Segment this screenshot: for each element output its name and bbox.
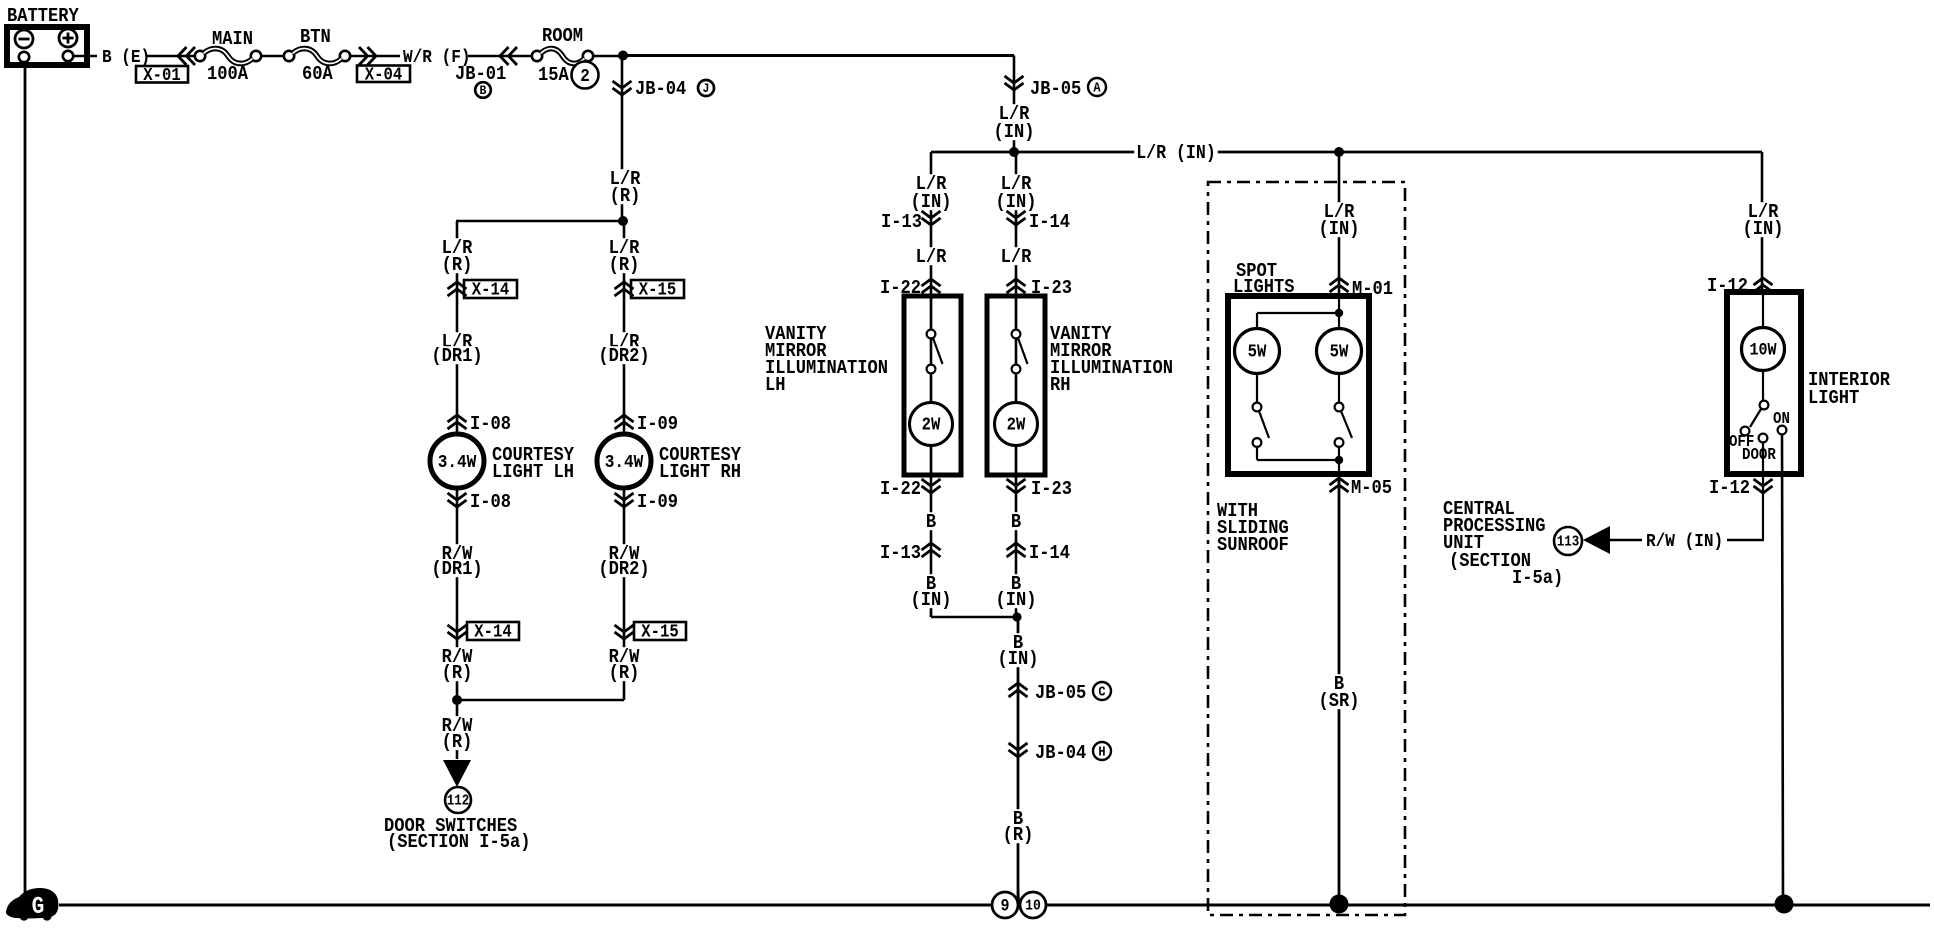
wire ground bus xyxy=(59,904,1930,907)
connector JB-05 A xyxy=(1005,76,1107,100)
lamp courtesy light LH 3.4W xyxy=(430,434,484,488)
label CENTRAL PROCESSING UNIT (SECTION I-5a) xyxy=(1443,498,1563,589)
connector I-22 lower xyxy=(880,478,941,500)
wire interior door contact to R/W (IN) xyxy=(1762,443,1764,541)
wire spot lights to ground xyxy=(1338,474,1341,903)
svg-text:B: B xyxy=(1011,511,1021,533)
svg-text:10W: 10W xyxy=(1749,341,1777,360)
lamp vanity LH 2W xyxy=(910,403,953,476)
label L/R (IN) vanity RH xyxy=(994,173,1039,213)
svg-text:I-5a): I-5a) xyxy=(1512,567,1563,589)
wire feed down to interior bus xyxy=(1013,56,1016,153)
svg-text:BTN: BTN xyxy=(300,26,331,48)
svg-text:X-14: X-14 xyxy=(472,281,510,301)
label R/W (IN) xyxy=(1646,531,1723,552)
connector I-12 lower xyxy=(1709,477,1773,499)
svg-text:I-08: I-08 xyxy=(470,491,511,513)
connector I-22 upper xyxy=(880,277,941,299)
label B vanity LH xyxy=(924,511,938,533)
label L/R (R) LH xyxy=(440,237,475,276)
vanity mirror illumination LH box xyxy=(904,296,961,475)
svg-text:(IN): (IN) xyxy=(1319,218,1360,240)
switch vanity RH xyxy=(1012,296,1028,402)
arrow to door switches xyxy=(443,760,471,787)
label B (SR) xyxy=(1317,673,1362,712)
svg-text:(IN): (IN) xyxy=(996,589,1037,611)
switch spot LH xyxy=(1253,374,1269,461)
label W/R (F) xyxy=(403,47,471,68)
node ground grommet 9 xyxy=(992,892,1018,918)
label OFF xyxy=(1729,433,1754,451)
connector I-13 lower xyxy=(880,542,941,564)
wire vanity LH to ground tee xyxy=(931,612,1017,617)
connector I-14 lower xyxy=(1007,542,1071,564)
wire MAIN to BTN xyxy=(261,55,284,58)
label B (IN) vanity LH xyxy=(909,573,954,611)
svg-text:(IN): (IN) xyxy=(998,648,1039,670)
wire BTN to X-04 xyxy=(350,55,400,58)
wire interior light drop xyxy=(1761,152,1764,292)
battery xyxy=(7,5,87,65)
svg-text:(R): (R) xyxy=(609,662,640,684)
svg-text:2W: 2W xyxy=(922,416,941,436)
wire courtesy RH drop xyxy=(623,221,626,700)
svg-text:(IN): (IN) xyxy=(911,191,952,213)
lamp spot RH 5W xyxy=(1317,329,1362,374)
svg-text:(IN): (IN) xyxy=(911,589,952,611)
connector M-05 xyxy=(1330,477,1393,499)
label R/W (DR2) xyxy=(596,543,651,580)
svg-text:C: C xyxy=(1098,684,1105,700)
svg-text:L/R (IN): L/R (IN) xyxy=(1136,142,1216,164)
wire battery negative to ground xyxy=(24,60,27,893)
svg-text:(IN): (IN) xyxy=(1743,218,1784,240)
vanity mirror illumination RH box xyxy=(987,296,1045,475)
switch interior light xyxy=(1741,401,1787,443)
svg-text:(R): (R) xyxy=(1003,824,1034,846)
label L/R (IN) spot xyxy=(1317,201,1362,240)
wire courtesy tee horizontal xyxy=(456,220,623,223)
wire R/W (IN) to interior light xyxy=(1727,539,1764,542)
svg-text:I-13: I-13 xyxy=(881,211,922,233)
label L/R (R) feed xyxy=(608,168,643,207)
svg-text:LIGHT RH: LIGHT RH xyxy=(659,461,741,483)
label COURTESY LIGHT LH xyxy=(492,444,574,483)
node spot ground junction xyxy=(1330,895,1349,914)
label WITH SLIDING SUNROOF xyxy=(1217,500,1289,556)
wire stem between grommets xyxy=(1018,891,1019,905)
svg-text:I-09: I-09 xyxy=(637,413,678,435)
node door-switch tee xyxy=(452,695,462,705)
svg-text:100A: 100A xyxy=(207,63,248,85)
connector X-04 xyxy=(357,47,410,85)
svg-text:5W: 5W xyxy=(1330,343,1349,363)
wire vanity LH drop xyxy=(930,152,933,617)
connector X-14 lower xyxy=(448,622,520,643)
node spot lights junction xyxy=(1334,147,1344,157)
label L/R vanity LH xyxy=(914,246,949,268)
connector I-08 lower xyxy=(448,491,512,513)
svg-text:LH: LH xyxy=(765,374,786,396)
svg-text:(SR): (SR) xyxy=(1319,690,1360,712)
svg-text:3.4W: 3.4W xyxy=(605,452,644,473)
connector X-15 lower xyxy=(615,622,687,643)
svg-text:R/W (IN): R/W (IN) xyxy=(1646,531,1723,552)
connector I-09 lower xyxy=(615,491,679,513)
connector X-14 upper xyxy=(448,280,518,301)
svg-text:B: B xyxy=(926,511,936,533)
fuse MAIN 100A xyxy=(195,28,261,85)
svg-text:(DR2): (DR2) xyxy=(598,558,649,580)
svg-text:(R): (R) xyxy=(442,731,473,753)
spot lights box xyxy=(1228,296,1369,474)
svg-text:X-01: X-01 xyxy=(143,66,181,86)
connector X-15 upper xyxy=(615,280,685,301)
node vanity ground tee xyxy=(1012,612,1021,621)
svg-text:H: H xyxy=(1098,744,1105,760)
connector M-01 xyxy=(1330,278,1394,300)
svg-text:ROOM: ROOM xyxy=(542,25,583,47)
connector I-23 lower xyxy=(1007,478,1073,500)
label R/W (R) LH xyxy=(440,646,475,684)
connector I-13 upper xyxy=(881,211,941,233)
label B (IN) stem xyxy=(996,632,1041,670)
wire B (E) to X-01 xyxy=(146,55,197,58)
svg-text:LIGHT: LIGHT xyxy=(1808,387,1859,409)
label L/R (IN) inline xyxy=(1134,142,1218,164)
svg-text:I-09: I-09 xyxy=(637,491,678,513)
svg-text:I-14: I-14 xyxy=(1029,542,1070,564)
svg-text:X-04: X-04 xyxy=(365,65,403,85)
svg-text:ON: ON xyxy=(1773,410,1790,428)
label L/R (DR1) xyxy=(429,331,484,367)
wire battery positive to B (E) xyxy=(73,55,97,58)
svg-text:15A: 15A xyxy=(538,64,569,86)
label SPOT LIGHTS xyxy=(1233,260,1295,298)
connector JB-04 J xyxy=(613,78,715,100)
wire door-switch tee horizontal xyxy=(457,699,624,702)
lamp interior light 10W xyxy=(1742,292,1785,400)
lamp spot LH 5W xyxy=(1235,329,1280,374)
svg-text:G: G xyxy=(32,894,45,921)
label DOOR SWITCHES (SECTION I-5a) xyxy=(384,815,531,853)
wire spot switches common xyxy=(1257,456,1343,464)
connector I-09 upper xyxy=(615,413,679,435)
node junction after ROOM fuse xyxy=(618,51,628,61)
svg-text:60A: 60A xyxy=(302,63,333,85)
label L/R (R) RH xyxy=(607,237,642,276)
label INTERIOR LIGHT xyxy=(1808,369,1890,409)
svg-text:JB-04: JB-04 xyxy=(1035,742,1086,764)
svg-text:10: 10 xyxy=(1025,897,1041,915)
label DOOR xyxy=(1742,446,1776,464)
wire arrow to R/W (IN) xyxy=(1610,539,1642,542)
wire interior ON contact to ground xyxy=(1782,435,1783,904)
connector I-23 upper xyxy=(1007,277,1073,299)
svg-text:2: 2 xyxy=(580,66,590,87)
with sliding sunroof dashed box xyxy=(1208,182,1405,915)
node spot internal junction xyxy=(1257,296,1343,329)
svg-text:(SECTION I-5a): (SECTION I-5a) xyxy=(387,831,531,853)
wire L/R (IN) bus xyxy=(931,151,1762,154)
svg-text:L/R: L/R xyxy=(1001,246,1032,268)
svg-text:I-14: I-14 xyxy=(1029,211,1070,233)
connector X-01 xyxy=(136,47,195,86)
wire top feed to JB-05 drop xyxy=(623,54,1014,57)
svg-text:X-15: X-15 xyxy=(641,623,678,643)
svg-text:I-08: I-08 xyxy=(470,413,511,435)
node 112 door switches xyxy=(445,787,471,813)
label ON xyxy=(1773,410,1790,428)
svg-text:L/R: L/R xyxy=(916,246,947,268)
connector I-08 upper xyxy=(448,413,512,435)
wire W/R (F) to JB-01 xyxy=(468,55,533,58)
svg-text:(DR1): (DR1) xyxy=(431,558,482,580)
svg-text:(IN): (IN) xyxy=(996,191,1037,213)
svg-text:3.4W: 3.4W xyxy=(438,452,477,473)
connector JB-01 B xyxy=(455,47,517,98)
svg-text:(DR1): (DR1) xyxy=(431,345,482,367)
connector I-14 upper xyxy=(1007,211,1071,233)
svg-text:(R): (R) xyxy=(609,254,640,276)
svg-text:113: 113 xyxy=(1557,535,1580,551)
svg-text:B: B xyxy=(480,83,487,98)
svg-text:5W: 5W xyxy=(1248,343,1267,363)
wire vanity ground stem xyxy=(1017,617,1020,897)
fuse ROOM 15A 2 xyxy=(532,25,599,89)
label B (R) stem xyxy=(1001,808,1036,846)
switch spot RH xyxy=(1335,374,1352,477)
svg-text:RH: RH xyxy=(1050,374,1071,396)
svg-text:JB-04: JB-04 xyxy=(635,78,686,100)
svg-text:JB-05: JB-05 xyxy=(1030,78,1081,100)
connector I-12 upper xyxy=(1707,275,1773,297)
svg-text:I-13: I-13 xyxy=(880,542,921,564)
label B (IN) vanity RH xyxy=(994,573,1039,611)
label R/W (R) to door switches xyxy=(440,715,475,753)
label B (E) xyxy=(102,47,150,68)
svg-text:I-12: I-12 xyxy=(1709,477,1750,499)
wire vanity RH drop xyxy=(1015,152,1018,617)
label B vanity RH xyxy=(1009,511,1023,533)
svg-text:X-14: X-14 xyxy=(474,623,512,643)
node vanity feed junction xyxy=(1009,147,1019,157)
svg-text:(DR2): (DR2) xyxy=(598,345,649,367)
label R/W (DR1) xyxy=(429,543,484,580)
wire junction down to courtesy tee xyxy=(621,56,624,221)
svg-text:I-23: I-23 xyxy=(1031,478,1072,500)
wire courtesy LH drop xyxy=(456,221,459,759)
node 113 central processing unit xyxy=(1554,527,1582,555)
svg-text:9: 9 xyxy=(1001,897,1010,916)
label L/R vanity RH xyxy=(999,246,1034,268)
svg-text:MAIN: MAIN xyxy=(212,28,253,50)
node ground grommet 10 xyxy=(1020,892,1046,918)
svg-text:2W: 2W xyxy=(1007,416,1026,436)
label L/R (IN) feed xyxy=(992,103,1037,143)
svg-text:JB-05: JB-05 xyxy=(1035,682,1086,704)
svg-text:(R): (R) xyxy=(442,662,473,684)
svg-text:(IN): (IN) xyxy=(994,121,1035,143)
svg-text:DOOR: DOOR xyxy=(1742,446,1776,464)
svg-text:BATTERY: BATTERY xyxy=(7,5,79,27)
label L/R (DR2) xyxy=(596,331,651,367)
svg-text:I-22: I-22 xyxy=(880,478,921,500)
label R/W (R) RH xyxy=(607,646,642,684)
arrow to central processing unit xyxy=(1583,526,1610,554)
wire spot lights drop xyxy=(1338,152,1341,296)
svg-text:(R): (R) xyxy=(610,185,641,207)
ground G body ground symbol xyxy=(6,888,58,921)
node courtesy tee xyxy=(618,216,628,226)
svg-text:M-05: M-05 xyxy=(1351,477,1392,499)
label COURTESY LIGHT RH xyxy=(659,444,741,483)
svg-text:J: J xyxy=(703,81,710,96)
label VANITY MIRROR ILLUMINATION LH xyxy=(765,323,888,396)
connector JB-04 H xyxy=(1009,742,1112,764)
svg-text:LIGHT LH: LIGHT LH xyxy=(492,461,574,483)
interior light box xyxy=(1727,292,1801,474)
svg-text:A: A xyxy=(1093,80,1101,96)
switch vanity LH xyxy=(927,296,943,402)
svg-text:112: 112 xyxy=(447,794,470,810)
lamp vanity RH 2W xyxy=(995,403,1038,476)
node interior ground junction xyxy=(1775,895,1794,914)
lamp courtesy light RH 3.4W xyxy=(597,434,651,488)
connector JB-05 C xyxy=(1009,682,1112,704)
svg-text:(R): (R) xyxy=(442,254,473,276)
fuse BTN 60A xyxy=(284,26,350,85)
label L/R (IN) vanity LH xyxy=(909,173,954,213)
label L/R (IN) interior xyxy=(1741,201,1786,240)
label VANITY MIRROR ILLUMINATION RH xyxy=(1050,323,1173,396)
svg-text:SUNROOF: SUNROOF xyxy=(1217,534,1289,556)
wire ROOM fuse to junction xyxy=(593,55,623,58)
svg-text:X-15: X-15 xyxy=(639,281,676,301)
